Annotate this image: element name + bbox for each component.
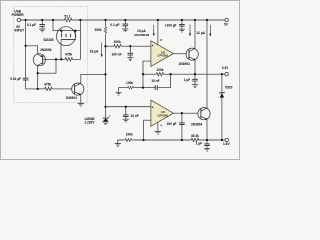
wire: Q2 emitter to 3.3V node	[194, 60, 196, 74]
svg-text:100 nF: 100 nF	[111, 52, 121, 56]
svg-text:+: +	[152, 105, 154, 109]
svg-text:INPUT: INPUT	[15, 29, 25, 33]
svg-text:1.235V: 1.235V	[84, 120, 95, 124]
wire: Q1 collector down	[37, 65, 39, 89]
svg-text:475k: 475k	[65, 52, 72, 56]
wire: collector to base tie	[38, 59, 56, 73]
capacitor 10nF feedback	[143, 74, 171, 87]
wire: to drain	[74, 31, 81, 60]
node dots on 5V rail	[24, 19, 26, 21]
svg-text:200k: 200k	[94, 28, 101, 32]
terminal 1.8V	[225, 138, 228, 141]
transistor Q1 2N3906	[33, 54, 45, 66]
gate lead	[60, 40, 62, 60]
mosfet internals	[61, 31, 75, 34]
wire: Q3 emitter to ground	[80, 95, 82, 103]
capacitor 0.01uF	[23, 78, 29, 80]
capacitor 1uF 1.8V	[206, 140, 208, 144]
capacitor 1uF 3.3V	[194, 74, 196, 79]
wire: drain riser	[79, 20, 81, 31]
capacitor 100nF	[129, 46, 131, 53]
svg-text:2N3904: 2N3904	[179, 62, 190, 66]
svg-text:1 µF: 1 µF	[184, 78, 190, 82]
capacitor 0.1uF rail mid	[124, 20, 126, 24]
svg-text:1.8V: 1.8V	[223, 142, 230, 146]
wire: main 5V rail	[21, 19, 225, 21]
op-amp U1b LPV358	[151, 100, 174, 126]
wire + resistor 100k to op-amp1 +in	[106, 45, 113, 47]
wire: op1 -in	[143, 61, 151, 88]
transistor Q2 2N3904	[186, 48, 198, 60]
svg-text:POWER: POWER	[12, 13, 25, 17]
svg-text:0520: 0520	[225, 86, 232, 90]
capacitor 0.1uF input	[41, 20, 43, 25]
output terminal 5V	[225, 18, 228, 21]
svg-text:0.1 µF: 0.1 µF	[110, 23, 119, 27]
svg-text:100k: 100k	[114, 40, 121, 44]
svg-text:0.01 µF: 0.01 µF	[10, 77, 21, 81]
wire: Q3 collector up and right to reference node	[81, 74, 106, 83]
resistor 475k gate	[64, 58, 73, 61]
capacitor 10nF reference	[125, 107, 127, 115]
svg-text:18 µA: 18 µA	[90, 50, 99, 54]
diode 0520 schottky	[221, 74, 223, 93]
transistor Q4 2N3904	[198, 108, 210, 120]
svg-text:100k: 100k	[126, 133, 133, 137]
svg-text:LPV358: LPV358	[158, 113, 169, 117]
wire: Q1 base / gate node	[43, 58, 64, 60]
svg-text:LPV358: LPV358	[158, 54, 169, 58]
ground + resistor 100k bottom	[115, 144, 121, 147]
resistor 200k (vertical)	[104, 26, 107, 33]
terminal 3.3V	[225, 73, 228, 76]
svg-text:2N3904: 2N3904	[191, 122, 202, 126]
dashed enclosure box	[14, 6, 88, 102]
wire: Q4 emitter to 1.8V	[206, 120, 208, 141]
wire: Q3 base from 475k	[38, 88, 44, 90]
svg-text:MAXIMUM: MAXIMUM	[134, 33, 149, 37]
svg-text:1 µF: 1 µF	[196, 141, 202, 145]
long rail drop to Q4 collector	[206, 20, 208, 108]
svg-text:12 µA: 12 µA	[196, 31, 205, 35]
svg-text:100k: 100k	[126, 81, 133, 85]
input terminal	[17, 18, 20, 21]
resistor 45.3k	[190, 138, 199, 141]
frame border	[1, 1, 240, 160]
svg-text:45.3k: 45.3k	[191, 134, 199, 138]
svg-text:10 nF: 10 nF	[130, 114, 138, 118]
svg-text:100 µF: 100 µF	[167, 122, 177, 126]
wire: chord	[53, 30, 80, 32]
svg-text:100k: 100k	[156, 68, 163, 72]
svg-text:51.1: 51.1	[64, 14, 70, 18]
LM385 reference	[105, 107, 107, 118]
wire: 3.3V rail	[171, 73, 225, 75]
svg-text:+100 µF: +100 µF	[165, 23, 177, 27]
pin 4 stub + ground	[157, 122, 159, 131]
svg-text:2N3904: 2N3904	[66, 96, 77, 100]
svg-text:SI2335: SI2335	[43, 38, 53, 42]
svg-text:2N3906: 2N3906	[40, 48, 51, 52]
svg-text:+: +	[152, 44, 154, 48]
MOSFET SI2335	[57, 27, 76, 46]
svg-text:475k: 475k	[44, 83, 51, 87]
pin 8 stub	[157, 20, 159, 45]
svg-text:0.1 µF: 0.1 µF	[27, 23, 36, 27]
ground	[39, 29, 45, 32]
wire: source riser	[52, 20, 54, 31]
feedback resistor 100k	[143, 73, 155, 75]
op-amp U1a LPV358	[151, 41, 174, 67]
wire: Q2 collector to rail	[194, 20, 196, 48]
wire: op2 output to Q4 base	[174, 112, 201, 114]
transistor Q3 2N3904 (in box)	[72, 83, 84, 95]
ground + resistor 100k lower leg	[115, 92, 121, 95]
wire: op2 -in	[144, 120, 151, 140]
resistor 51.1 in rail	[64, 18, 73, 21]
wire: emitter link	[26, 46, 38, 54]
capacitor 100uF rail	[181, 20, 183, 24]
wire: op1 output to Q2 base	[174, 53, 190, 55]
svg-text:10 nF: 10 nF	[151, 79, 159, 83]
middle column: 200k from rail	[105, 20, 107, 26]
resistor 475k base	[44, 87, 53, 90]
reference node wire to op2	[104, 106, 106, 108]
svg-text:3.3V: 3.3V	[222, 66, 229, 70]
capacitor 100uF output	[181, 113, 183, 123]
wire: branch to 2N3906 emitter and 0.01uF	[25, 20, 27, 78]
